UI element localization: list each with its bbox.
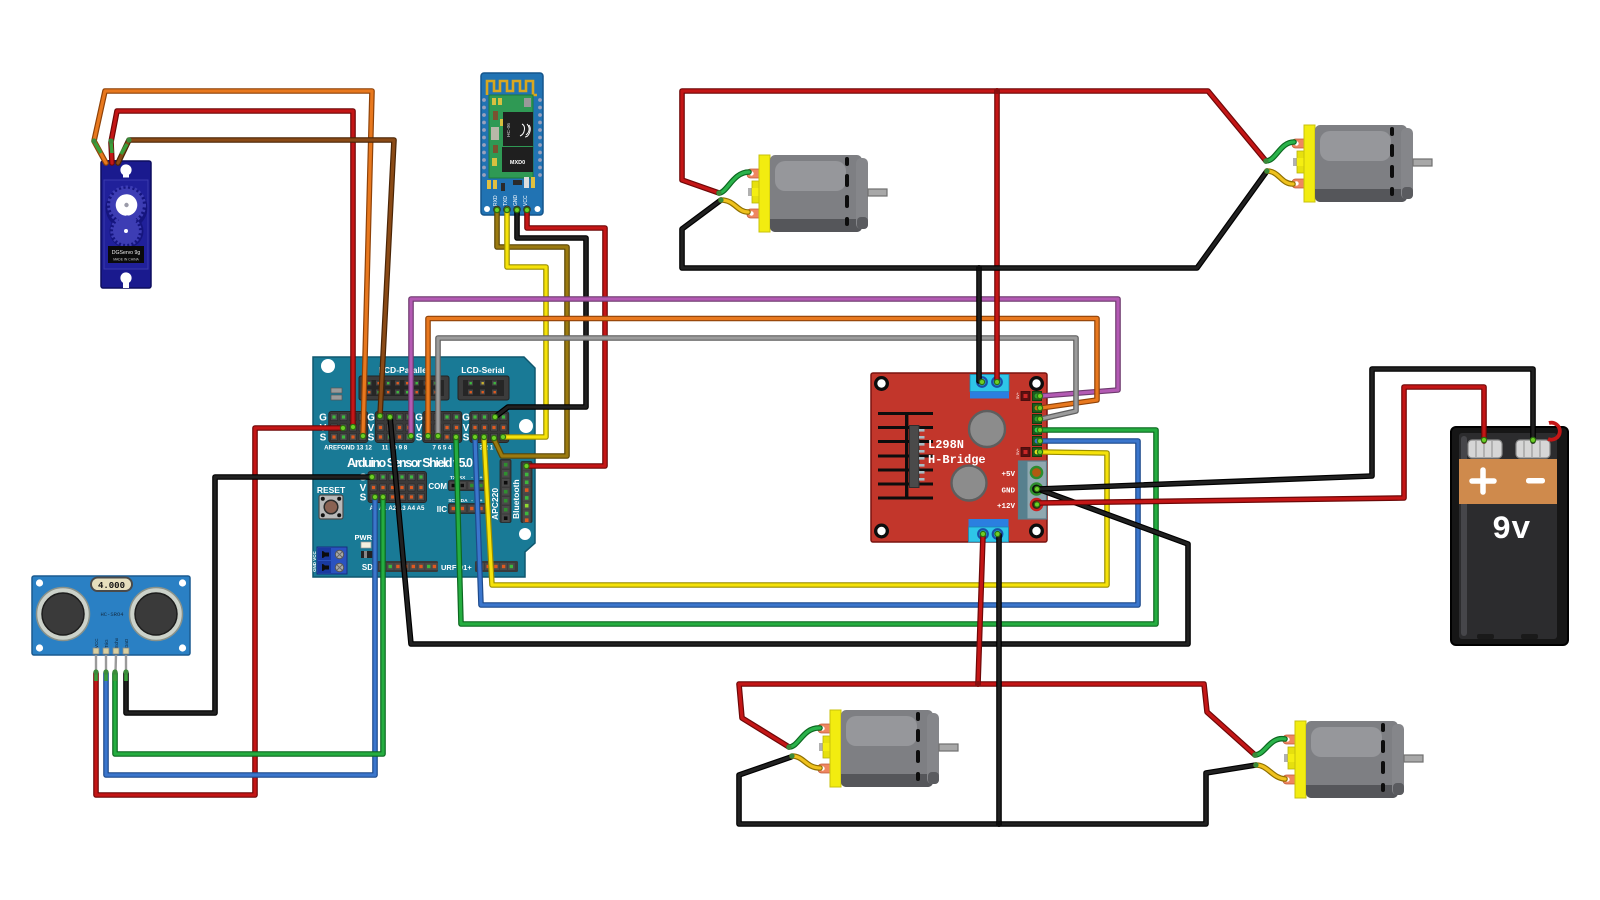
svg-text:HC-06: HC-06 <box>506 123 512 137</box>
wire red drop from L298N OUT3 <box>978 535 983 684</box>
svg-text:MXD0: MXD0 <box>510 160 525 166</box>
9V battery <box>1451 423 1568 645</box>
M2 yellow terminal lead <box>1267 171 1293 184</box>
digital header 11 10 9 8 <box>367 412 414 452</box>
svg-text:5V+: 5V+ <box>1016 391 1020 399</box>
svg-text:5V+: 5V+ <box>1016 447 1020 455</box>
SD / URF 01+ pin rows <box>362 561 518 572</box>
svg-text:H-Bridge: H-Bridge <box>928 453 986 467</box>
DC motor M3 bottom left <box>818 710 958 787</box>
svg-text:DGServo 9g: DGServo 9g <box>112 250 141 256</box>
M4 green terminal lead <box>1255 739 1285 755</box>
wire shield pin 2 S to L298N ENB (yellow) <box>484 437 1107 585</box>
wire servo brown (GND) to shield pin 11 G <box>118 140 394 416</box>
svg-text:Bluetooth: Bluetooth <box>511 479 521 519</box>
wire net motors M3 M4 positive (red) <box>739 684 1255 755</box>
svg-text:RXD: RXD <box>493 195 499 206</box>
battery - terminal <box>1516 440 1550 458</box>
heatsink <box>878 412 933 500</box>
svg-text:G: G <box>415 413 423 424</box>
wire servo red (V+) to shield pin 13 V <box>111 111 353 427</box>
svg-text:APC220: APC220 <box>490 488 500 520</box>
svg-text:9v: 9v <box>1492 511 1530 548</box>
digital header 3 2 1 0 <box>462 412 509 452</box>
svg-text:AREFGND 13 12: AREFGND 13 12 <box>324 445 372 452</box>
svg-text:7 6 5 4: 7 6 5 4 <box>433 445 452 452</box>
LCD-Parallel connector <box>359 365 449 400</box>
svg-text:G: G <box>462 413 470 424</box>
svg-text:IIC: IIC <box>437 505 447 514</box>
junction dot black OUT4 net <box>996 821 1002 827</box>
motor driver L298N H-Bridge <box>871 373 1047 542</box>
M2 green terminal lead <box>1266 142 1294 161</box>
wire battery - to L298N GND (black) <box>1038 369 1533 489</box>
M4 yellow terminal lead <box>1256 765 1285 779</box>
DC motor M2 top right <box>1292 125 1432 202</box>
junction dot red OUT2 net <box>994 88 1000 94</box>
DC motor M1 top left <box>747 155 887 232</box>
svg-text:VCC: VCC <box>94 638 99 648</box>
ultrasonic sensor HC-SR04 <box>32 576 190 673</box>
Bluetooth header <box>511 462 532 524</box>
5V+ jumper ENA <box>1016 391 1030 400</box>
chip HC-06 <box>503 112 533 146</box>
capacitor C2 <box>952 466 987 501</box>
servo motor DGServo 9g <box>101 160 151 288</box>
analog header A0-A5 <box>359 472 426 513</box>
wire net motors M1 M2 negative (black) <box>682 171 1267 268</box>
bluetooth module HC-06 <box>481 73 543 215</box>
power terminal block GND VCC <box>312 547 347 574</box>
5V+ jumper ENB <box>1016 447 1030 456</box>
wire shield pin 6 S to L298N IN2 (gray) <box>438 338 1076 436</box>
battery + terminal <box>1468 440 1502 458</box>
svg-text:GND: GND <box>1001 488 1015 496</box>
svg-text:S: S <box>463 433 470 444</box>
svg-text:MADE IN CHINA: MADE IN CHINA <box>113 258 139 262</box>
wire HC-SR04 Trig (blue) to shield A0 S <box>106 497 375 775</box>
M1 yellow terminal lead <box>721 200 748 212</box>
junction dot red OUT3 net <box>975 681 981 687</box>
control pin header IN1-IN4 ENA ENB <box>1033 392 1042 457</box>
wire HC-SR04 VCC (red) to shield V pin <box>96 428 343 795</box>
wire black drop from L298N OUT4 <box>996 535 1002 824</box>
wire shield pin 10 G to L298N GND (black) <box>390 417 1188 644</box>
wire bluetooth VCC (red) to shield Bluetooth header <box>527 210 605 466</box>
svg-text:S: S <box>368 433 375 444</box>
wire bluetooth TXD (yellow) to shield pin 0 S <box>504 210 546 437</box>
svg-text:Echo: Echo <box>114 637 119 648</box>
svg-text:TXD: TXD <box>503 196 509 206</box>
wire net motors M3 M4 negative (black) <box>739 757 1256 824</box>
digital header AREF GND 13 12 <box>319 412 372 452</box>
wire HC-SR04 Echo (green) to shield A1 S <box>115 497 383 754</box>
svg-text:S: S <box>416 433 423 444</box>
svg-text:+5V: +5V <box>1001 471 1015 479</box>
orange label band <box>1459 459 1557 504</box>
svg-text:RESET: RESET <box>317 485 346 495</box>
wire shield pin 4 S to L298N IN3 (green) <box>456 430 1156 624</box>
capacitor C1 <box>969 411 1005 447</box>
wire bluetooth GND (black) to shield pin 1 G <box>495 210 586 417</box>
svg-text:GND VCC: GND VCC <box>312 550 317 572</box>
top screw terminal OUT <box>970 375 1009 392</box>
connector leg dots (green) <box>91 137 1269 767</box>
M3 yellow terminal lead <box>792 756 820 768</box>
M1 green terminal lead <box>719 172 749 193</box>
power terminal +5V GND +12V <box>997 461 1047 519</box>
chip MXD <box>502 147 533 172</box>
svg-text:S: S <box>360 493 367 504</box>
LCD-Serial connector <box>458 365 509 400</box>
svg-text:GnD: GnD <box>124 638 129 648</box>
wire shield pin 7 S to L298N IN1 (orange) <box>428 319 1097 437</box>
wire black drop to L298N OUT1 <box>976 268 982 381</box>
svg-text:G: G <box>367 413 375 424</box>
red snap clip <box>1548 423 1560 440</box>
bottom screw terminal OUT <box>969 519 1009 527</box>
wire servo orange (PWM) to shield pin 12 S <box>94 91 372 436</box>
digital header 7 6 5 4 <box>415 412 462 452</box>
svg-text:GND: GND <box>513 195 519 207</box>
wire bluetooth RXD (dark gold) to shield pin 1 S <box>494 210 567 456</box>
wire red drop to L298N OUT2 <box>994 91 1000 381</box>
COM header <box>428 475 486 491</box>
DC motor M4 bottom right <box>1283 721 1423 798</box>
M3 green terminal lead <box>789 728 820 747</box>
svg-text:COM: COM <box>428 482 447 491</box>
board title text <box>347 456 473 470</box>
svg-text:LCD-Parallel: LCD-Parallel <box>379 365 430 375</box>
APC220 header <box>490 460 511 523</box>
wire net motors M1 M2 positive (red) <box>682 91 1266 193</box>
wire shield pin 8 S to L298N ENA (purple) <box>411 299 1118 436</box>
svg-text:VCC: VCC <box>523 195 529 206</box>
wire HC-SR04 GND (black) to shield A0 G <box>126 477 372 713</box>
svg-text:LCD-Serial: LCD-Serial <box>461 365 504 375</box>
pin connection indicators <box>340 207 1535 536</box>
junction dot black OUT1 net <box>976 265 982 271</box>
svg-text:SD: SD <box>362 563 373 572</box>
svg-text:TriG: TriG <box>104 639 109 648</box>
wire shield pin 3 S to L298N IN4 (blue) <box>475 437 1138 605</box>
svg-text:PWR: PWR <box>355 533 373 542</box>
svg-text:S: S <box>320 433 327 444</box>
svg-text:+12V: +12V <box>997 503 1016 511</box>
svg-text:4.000: 4.000 <box>98 581 125 591</box>
RESET button <box>317 485 346 519</box>
IIC header <box>437 498 486 514</box>
wire battery + to L298N +12V (red) <box>1037 387 1484 503</box>
svg-text:URF: URF <box>441 563 457 572</box>
svg-text:L298N: L298N <box>928 438 964 452</box>
PWR LED <box>355 533 374 558</box>
Arduino Sensor Shield v5.0 board <box>313 357 535 577</box>
svg-text:HC-SRO4: HC-SRO4 <box>100 611 124 618</box>
svg-text:G: G <box>319 413 327 424</box>
